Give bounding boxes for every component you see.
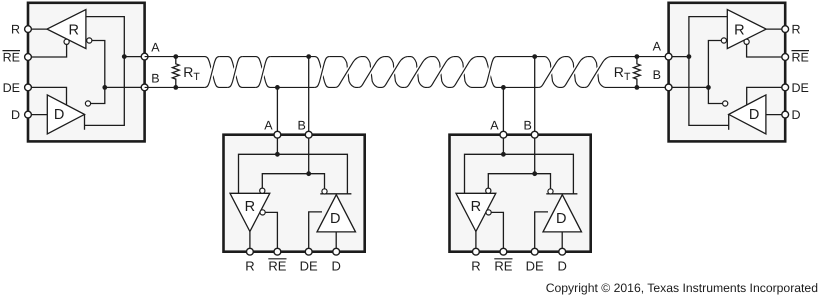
wire U2 node A to receiver input and driver output [239, 154, 348, 194]
pin R of U4 [782, 26, 789, 33]
cable twist crossing (rising strand over) [358, 57, 384, 88]
svg-text:R: R [734, 22, 744, 38]
cable twist crossing (rising strand over) [562, 57, 588, 88]
cable twist crossing (rising strand over) [451, 57, 477, 88]
receiver R of U4 [727, 10, 766, 49]
svg-text:R: R [245, 199, 255, 215]
node: RT right top junction [635, 54, 640, 59]
resistor RT (left termination) [172, 57, 179, 88]
svg-text:R: R [471, 258, 480, 273]
node B junction U4 [706, 85, 711, 90]
cable twist crossing (rising strand over) [315, 57, 329, 88]
pin D of U1 [25, 111, 32, 118]
node: RT left bottom junction [173, 85, 178, 90]
wire U1 D input [28, 114, 47, 116]
pin RE of U4 [782, 54, 789, 61]
wire U2 receiver output to pin R [249, 232, 251, 252]
node A junction U1 [122, 54, 127, 59]
pin A of U4 [665, 53, 672, 60]
transceiver U1 (left) body [28, 3, 145, 142]
cable twist crossing (rising strand over) [482, 57, 496, 88]
wire U3 pin A to internal node [502, 135, 504, 155]
wire twisted-pair cable strand 1 (A side at U1) [145, 57, 669, 88]
svg-text:RE: RE [268, 258, 286, 273]
svg-text:D: D [556, 211, 566, 227]
svg-text:T: T [193, 71, 200, 83]
node B junction U2 [306, 171, 311, 176]
wire stub bus B to U3 pin B [534, 57, 536, 135]
resistor RT (right termination) [634, 57, 641, 88]
wire U3 DE to driver enable [535, 212, 548, 252]
pin D of U3 [559, 248, 566, 255]
pin R of U1 [25, 26, 32, 33]
pin DE of U2 [305, 248, 312, 255]
wire U4 DE to driver enable [747, 87, 786, 105]
pin RE of U2 [274, 248, 281, 255]
wire twisted-pair cable strand 2 (B side at U1) [145, 57, 669, 88]
driver D of U2 [317, 195, 356, 232]
svg-text:DE: DE [300, 258, 318, 273]
cable twist crossing (rising strand over) [405, 57, 431, 88]
receiver enable bubble U1 [64, 39, 69, 44]
cable twist crossing (rising strand over) [228, 57, 242, 88]
svg-text:RE: RE [3, 51, 20, 65]
wire U1 driver output bar to node A [85, 57, 125, 130]
svg-text:A: A [151, 41, 160, 55]
svg-text:B: B [653, 68, 661, 82]
pin DE of U4 [782, 84, 789, 91]
pin A of U3 [500, 131, 507, 138]
node bus A tap for U3 [501, 85, 506, 90]
cable twist crossing (rising strand over) [205, 57, 219, 88]
node bus B tap for U3 [532, 54, 537, 59]
wire U3 RE to receiver enable [491, 212, 503, 251]
node B junction U3 [532, 171, 537, 176]
receiver R of U2 [230, 193, 270, 231]
wire U3 pin B to internal node [534, 135, 536, 174]
svg-text:DE: DE [792, 81, 809, 95]
svg-text:A: A [264, 118, 273, 132]
driver inverting output bubble U3 [548, 189, 553, 194]
svg-text:R: R [471, 199, 481, 215]
node bus A tap for U2 [275, 85, 280, 90]
receiver inverting input bubble U4 [721, 38, 726, 43]
wire U4 driver output bar to node A [728, 114, 730, 130]
driver D of U3 [543, 195, 582, 232]
pin R of U2 [247, 248, 254, 255]
wire U3 node A to receiver input and driver output [465, 154, 574, 194]
driver output bar U3 [546, 193, 577, 195]
wire U2 DE to driver enable [309, 212, 322, 252]
wire stub bus A to U2 pin A [276, 87, 278, 134]
pin RE of U3 [500, 248, 507, 255]
svg-text:DE: DE [526, 258, 544, 273]
pin D of U4 [782, 111, 789, 118]
receiver R of U3 [456, 193, 496, 231]
node A junction U3 [501, 152, 506, 157]
svg-text:R: R [183, 64, 193, 80]
svg-text:D: D [54, 107, 64, 123]
pin B of U4 [665, 84, 672, 91]
svg-text:Copyright © 2016, Texas Instru: Copyright © 2016, Texas Instruments Inco… [546, 281, 818, 295]
svg-text:R: R [614, 64, 624, 80]
receiver inverting input bubble U2 [260, 188, 265, 193]
wire U4 pin A [669, 86, 709, 88]
svg-text:D: D [558, 258, 567, 273]
svg-text:D: D [332, 258, 341, 273]
pin A of U1 [141, 53, 148, 60]
receiver R of U1 [47, 10, 86, 49]
driver inverting output bubble U1 [85, 101, 90, 106]
svg-text:R: R [69, 22, 79, 38]
wire U1 receiver non-inverting input from A [86, 17, 124, 57]
svg-text:RE: RE [494, 258, 512, 273]
pin DE of U1 [25, 84, 32, 91]
receiver enable bubble U4 [744, 39, 749, 44]
wire U1 pin A [105, 86, 145, 88]
transceiver U4 (right) body [669, 3, 786, 142]
cable twist crossing (rising strand over) [256, 57, 270, 88]
wire U2 RE to receiver enable [265, 212, 277, 251]
wire U4 R output to pin R [766, 28, 785, 30]
receiver enable bubble U2 [260, 210, 265, 215]
pin D of U2 [333, 248, 340, 255]
svg-text:R: R [792, 23, 801, 37]
wire U4 receiver inverting input / driver inverting output to node B [708, 41, 722, 104]
wire U1 R output to pin R [28, 28, 47, 30]
svg-text:T: T [624, 71, 631, 83]
wire U2 pin D to driver input [335, 232, 337, 252]
wire stub bus A to U3 pin A [502, 87, 504, 134]
pin R of U3 [473, 248, 480, 255]
svg-text:D: D [330, 211, 340, 227]
cable twist crossing (rising strand over) [382, 57, 408, 88]
svg-text:B: B [298, 118, 306, 132]
pin A of U2 [274, 131, 281, 138]
node B junction U1 [102, 85, 107, 90]
pin B of U2 [305, 131, 312, 138]
wire U1 DE to driver enable [28, 87, 67, 105]
wire U4 receiver non-inverting input from A [689, 17, 727, 57]
node: RT left top junction [173, 54, 178, 59]
transceiver U2 body [224, 135, 365, 252]
receiver inverting input bubble U3 [486, 188, 491, 193]
pin RE of U1 [25, 54, 32, 61]
node A junction U4 [687, 54, 692, 59]
receiver inverting input bubble U1 [87, 38, 92, 43]
driver inverting output bubble U2 [322, 189, 327, 194]
wire U4 D input [766, 114, 785, 116]
cable twist crossing (rising strand over) [335, 57, 361, 88]
wire U3 node B to receiver inverting input and driver inverting output [488, 174, 550, 189]
wire U1 RE to receiver enable [28, 44, 67, 57]
driver inverting output bubble U4 [723, 101, 728, 106]
transceiver U3 body [450, 135, 591, 252]
svg-text:A: A [490, 118, 499, 132]
svg-text:DE: DE [3, 81, 20, 95]
wire U2 node B to receiver inverting input and driver inverting output [262, 174, 324, 189]
pin B of U3 [531, 131, 538, 138]
svg-text:B: B [151, 71, 159, 85]
wire U2 pin B to internal node [308, 135, 310, 174]
node A junction U2 [275, 152, 280, 157]
driver output bar U2 [320, 193, 351, 195]
wire U3 receiver output to pin R [475, 232, 477, 252]
wire U2 pin A to internal node [276, 135, 278, 155]
cable twist crossing (rising strand over) [585, 57, 611, 88]
pin DE of U3 [531, 248, 538, 255]
svg-text:A: A [653, 40, 662, 54]
cable twist crossing (rising strand over) [539, 57, 565, 88]
svg-text:B: B [524, 118, 532, 132]
svg-text:D: D [792, 108, 801, 122]
receiver enable bubble U3 [486, 210, 491, 215]
driver D of U1 [47, 95, 84, 134]
node bus B tap for U2 [306, 54, 311, 59]
svg-text:D: D [11, 108, 20, 122]
driver D of U4 [729, 95, 766, 134]
svg-text:D: D [749, 107, 759, 123]
svg-text:R: R [245, 258, 254, 273]
wire U3 pin D to driver input [561, 232, 563, 252]
cable twist crossing (rising strand over) [428, 57, 454, 88]
pin B of U1 [141, 84, 148, 91]
wire U1 receiver inverting input / driver inverting output to node B [91, 41, 105, 104]
svg-text:R: R [11, 23, 20, 37]
svg-text:RE: RE [792, 51, 809, 65]
node: RT right bottom junction [635, 85, 640, 90]
wire stub bus B to U2 pin B [308, 57, 310, 135]
wire U4 RE to receiver enable [747, 44, 786, 57]
